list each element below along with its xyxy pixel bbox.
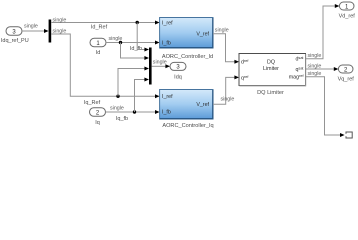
wire In3 to demux — [22, 23, 49, 33]
inport 2 Iq — [90, 108, 106, 126]
svg-text:DQ: DQ — [267, 60, 275, 66]
svg-text:DQ Limiter: DQ Limiter — [257, 90, 284, 96]
inport 3 Idq_ref_PU — [1, 27, 29, 44]
junction on Iq wire — [133, 110, 136, 113]
svg-text:single: single — [308, 64, 322, 70]
svg-text:Idq: Idq — [174, 75, 182, 81]
svg-text:Limiter: Limiter — [263, 66, 279, 72]
svg-text:Iq_fb: Iq_fb — [116, 116, 128, 122]
svg-text:I_fb: I_fb — [162, 110, 171, 116]
wire Id_Ref (demux top out to I_ref of AORC_Controller_Id) — [51, 18, 159, 31]
junction on Iq_Ref wire — [116, 95, 119, 98]
demux — [49, 20, 52, 43]
svg-text:single: single — [24, 23, 38, 29]
junction on Id wire — [119, 41, 122, 44]
svg-text:I_ref: I_ref — [162, 21, 173, 27]
svg-text:single: single — [110, 105, 124, 111]
svg-text:Idq_ref_PU: Idq_ref_PU — [1, 38, 29, 44]
wire branch Iq_Ref to mux in3 — [118, 67, 149, 97]
junction on Id_Ref wire — [136, 21, 139, 24]
wire Iq V_ref to DQ q_ref — [213, 75, 239, 104]
svg-text:single: single — [53, 18, 67, 24]
svg-text:AORC_Controller_Id: AORC_Controller_Id — [162, 54, 213, 60]
outport 3 Idq — [170, 62, 186, 80]
inport 1 Id — [90, 38, 106, 56]
svg-text:Iq: Iq — [95, 120, 100, 126]
wire branch Id_Ref to mux in1 — [137, 23, 149, 52]
svg-text:single: single — [53, 28, 67, 34]
svg-text:Id: Id — [96, 50, 101, 56]
wire mux out to outport 3 Idq — [152, 60, 170, 69]
svg-text:single: single — [153, 60, 167, 66]
wire d_sat to outport 1 Vd_ref — [306, 4, 340, 59]
svg-text:Iq_Ref: Iq_Ref — [84, 100, 101, 106]
wire Iq_Ref (demux bottom out, down, to I_ref of AORC_Controller_Iq) — [51, 28, 159, 106]
wire Iq to I_fb of Iq controller — [106, 105, 160, 122]
wire Id to I_fb — [106, 36, 160, 52]
mux — [149, 48, 152, 85]
svg-text:single: single — [308, 71, 322, 77]
outport 2 Vq_ref — [338, 65, 355, 82]
svg-text:V_ref: V_ref — [196, 102, 209, 108]
svg-text:Vd_ref: Vd_ref — [339, 13, 356, 19]
block DQ Limiter — [239, 54, 306, 97]
wire branch Id to mux in2 — [121, 43, 150, 61]
svg-text:AORC_Controller_Iq: AORC_Controller_Iq — [162, 123, 213, 129]
outport 1 Vd_ref — [339, 2, 356, 19]
svg-text:I_ref: I_ref — [162, 94, 173, 100]
wire mag_ref to terminator — [306, 71, 345, 137]
svg-text:V_ref: V_ref — [196, 31, 209, 37]
wire branch Iq to mux in4 — [135, 78, 150, 113]
subsystem AORC_Controller_Id — [160, 18, 214, 60]
wire q_sat to outport 2 Vq_ref — [306, 64, 339, 72]
svg-text:single: single — [215, 28, 229, 34]
svg-text:I_fb: I_fb — [162, 40, 171, 46]
svg-text:single: single — [221, 97, 235, 103]
terminator — [346, 132, 352, 138]
wire Id V_ref to DQ d_ref — [213, 28, 239, 64]
subsystem AORC_Controller_Iq — [160, 90, 214, 129]
svg-text:single: single — [308, 53, 322, 59]
svg-text:Id_Ref: Id_Ref — [91, 24, 108, 30]
svg-text:Vq_ref: Vq_ref — [338, 76, 355, 82]
